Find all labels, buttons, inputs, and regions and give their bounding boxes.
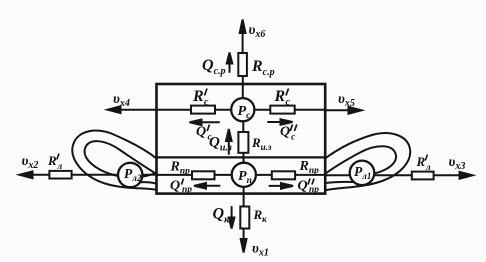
svg-text:пр: пр [182,185,192,195]
heat flow arrow Qc'' (right) [268,121,282,123]
node Pc (circle) [231,98,254,121]
resistor Rс.р (vertical, top) [238,53,247,76]
resistor Rиз (vertical, center) [238,132,248,153]
resistor Rк (vertical, bottom) [240,207,249,229]
label Rc' right [274,88,291,108]
wire: lead loop outer (left, node Pл2) [72,131,156,190]
resistor Rпр right (horizontal) [272,171,295,179]
arrow vx4 (left, from case) [115,109,157,111]
wire: vertical center (Pc to Pп through Rиз) [242,110,244,175]
svg-text:л: л [425,162,431,172]
svg-text:Rпр: Rпр [170,160,191,177]
resistor Rл' left (horizontal, external) [49,171,71,179]
svg-text:R: R [47,153,57,168]
svg-text:R: R [192,88,204,105]
wire: Pп down to Rк [243,175,245,228]
arrow vx1 (down, bottom center) [243,228,245,245]
svg-text:υх2: υх2 [22,154,39,171]
svg-text:л: л [57,161,63,171]
resistor Rc' right (horizontal) [270,106,294,114]
svg-text:Q: Q [170,179,180,194]
node Pл1 (circle) [350,161,375,186]
svg-text:Qс.р: Qс.р [202,57,226,77]
heat flow arrow Qиз (up) [228,141,230,154]
wire: lead loop inner (right, node Pл1) [325,146,396,175]
svg-text:υх4: υх4 [113,92,130,109]
label Rл' left [47,153,63,171]
node Pп (circle) [232,163,256,187]
case divider line [157,156,326,158]
resistor Rпр left (horizontal) [192,171,215,179]
node Pл2 (circle) [118,163,142,187]
wire: junction row (horizontal through Pп) [157,174,326,176]
wire: lead loop inner (left, node Pл2) [85,141,157,177]
heat flow arrow Qпр'' (right) [270,185,284,187]
svg-text:Rс.р: Rс.р [251,58,275,78]
svg-text:υх3: υх3 [449,155,466,172]
svg-text:Rи.з: Rи.з [251,135,272,152]
wire: lead stub below (left) [138,182,157,184]
arrow vx6 (up, top center) [242,27,244,53]
heat flow arrow Qпр' (left) [204,185,220,187]
svg-text:υх5: υх5 [338,92,355,109]
svg-text:с: с [291,133,296,143]
svg-text:υх1: υх1 [252,242,269,259]
svg-text:υх6: υх6 [249,23,266,40]
wire: left lead to Rл' and arrow vx2 [27,174,157,176]
wire: lead loop outer (right, node Pл1) [325,133,410,190]
label Qc' [196,125,213,143]
label Rc' left [192,88,209,108]
svg-text:Rк: Rк [253,207,268,224]
svg-text:с: с [204,97,209,108]
svg-text:Rпр: Rпр [299,159,320,176]
svg-text:R: R [416,154,426,169]
svg-text:с: с [286,97,291,108]
svg-text:Q: Q [298,179,308,194]
svg-text:пр: пр [309,185,319,195]
label Qпр'' [298,179,320,196]
resistor Rл' right (horizontal, external) [412,172,434,180]
svg-text:Q: Q [280,125,290,140]
label Rл' right [416,154,432,172]
arrow vx5 (right, from case) [325,109,354,111]
svg-text:R: R [274,88,286,105]
wire: lead stub below (right) [325,182,353,183]
svg-text:Qк: Qк [213,206,231,226]
svg-text:Q: Q [196,125,206,140]
label Qпр' [170,179,192,196]
wire: collector row (horizontal through Pc) [157,109,326,111]
heat flow arrow Qc' (left) [200,121,219,123]
wire: right lead to Rл' and arrow vx3 [325,174,465,176]
heat flow arrow Qк (down) [231,207,233,221]
heat flow arrow Qс.р (up) [229,58,231,72]
wire: Pc up to Rс.р [242,54,244,110]
label Qc'' [280,125,297,143]
transistor case outline [157,84,326,194]
resistor Rc' left (horizontal) [191,106,215,114]
